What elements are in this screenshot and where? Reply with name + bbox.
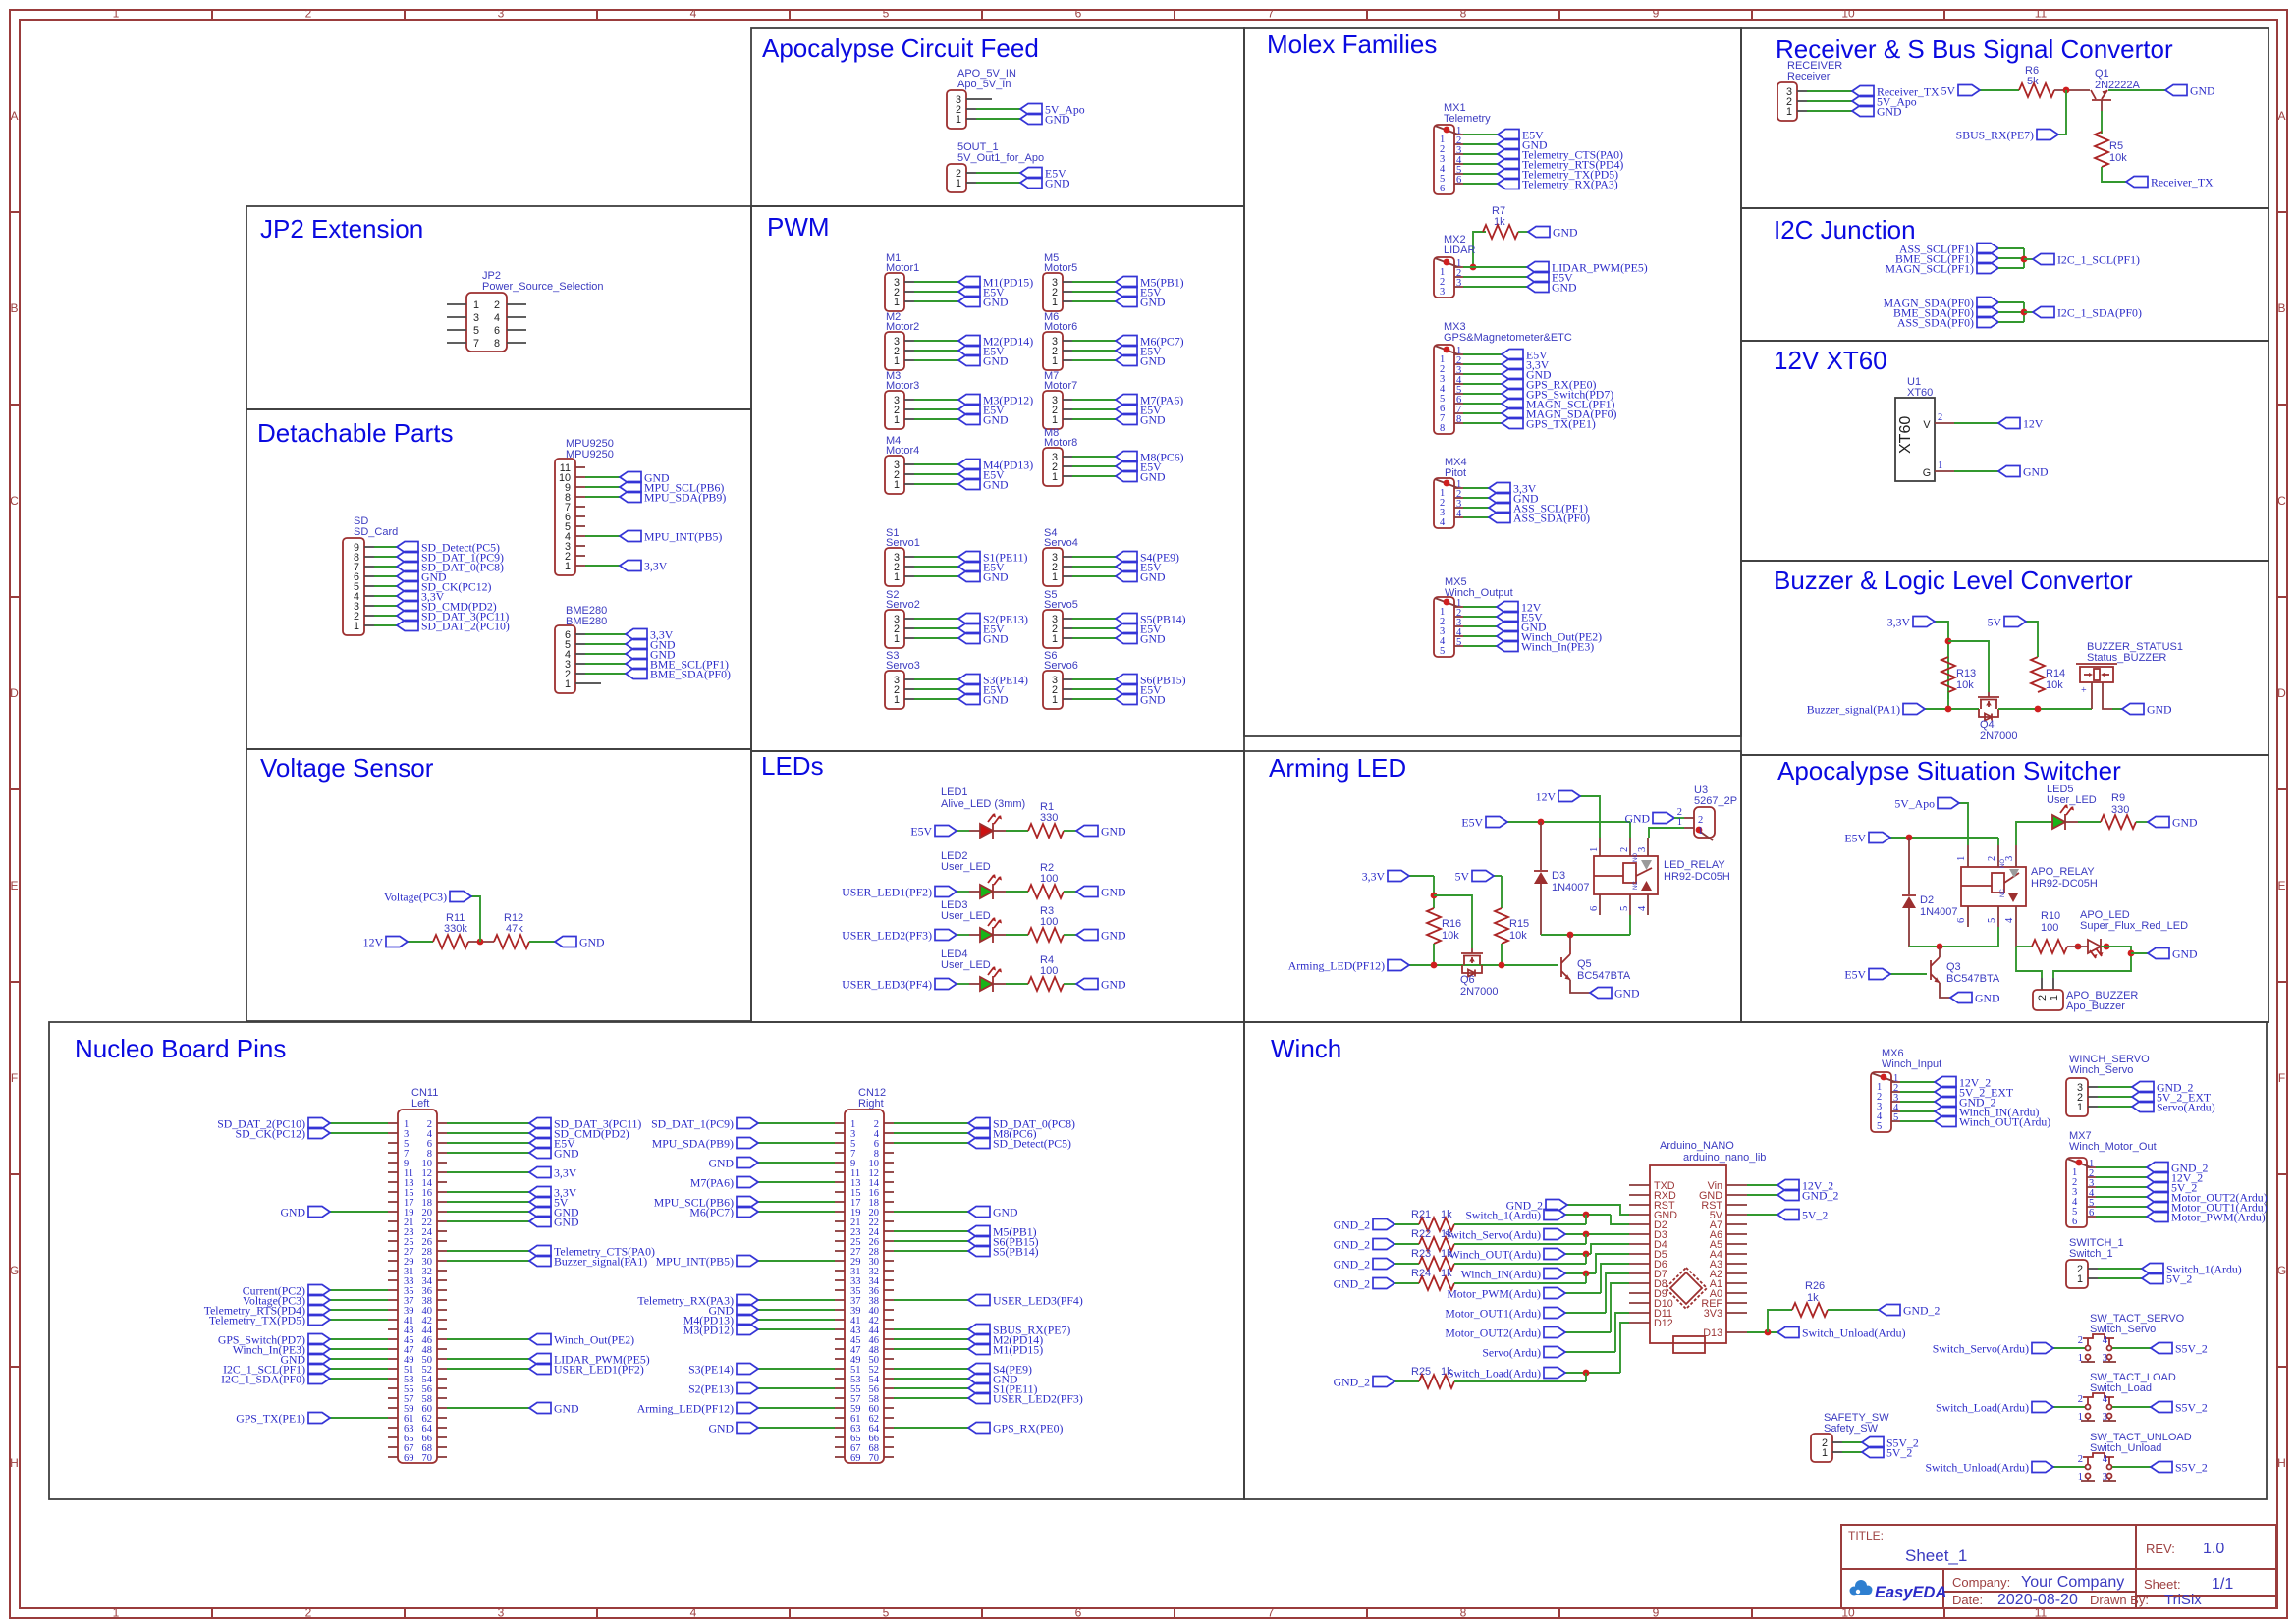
svg-text:HR92-DC05H: HR92-DC05H	[2031, 878, 2098, 890]
wire	[1674, 817, 1684, 819]
wire	[1541, 934, 1630, 936]
wire	[1565, 1351, 1615, 1353]
svg-text:Q4: Q4	[1980, 719, 1995, 731]
svg-text:3: 3	[2103, 1412, 2107, 1423]
net flag Telemetry_CTS(PA0)	[1498, 149, 1519, 160]
svg-text:3: 3	[498, 7, 505, 21]
net flag M4(PD13)	[958, 460, 980, 470]
wire	[1908, 908, 1910, 947]
svg-text:GND: GND	[1140, 693, 1166, 707]
wire	[585, 653, 626, 655]
wire	[2016, 946, 2032, 947]
net flag E5V	[1869, 969, 1890, 980]
wire	[330, 1378, 388, 1380]
svg-text:330k: 330k	[444, 923, 467, 935]
svg-text:12V: 12V	[2023, 417, 2044, 431]
wire	[1611, 1215, 1629, 1224]
wire	[1394, 1282, 1419, 1284]
wire	[1998, 257, 2024, 259]
wire	[914, 483, 958, 485]
wire	[2067, 946, 2088, 947]
net flag GND	[1076, 930, 1098, 941]
svg-text:ASS_SDA(PF0): ASS_SDA(PF0)	[1513, 512, 1590, 525]
wire	[1768, 1310, 1792, 1332]
junction	[1765, 1329, 1772, 1336]
svg-text:MPU_SDA(PB9): MPU_SDA(PB9)	[652, 1137, 734, 1151]
svg-text:GND: GND	[579, 936, 605, 949]
wire	[1900, 1120, 1935, 1122]
svg-text:Motor_OUT2(Ardu): Motor_OUT2(Ardu)	[1445, 1326, 1541, 1340]
net flag GND_2	[1373, 1219, 1394, 1230]
wire	[758, 1328, 835, 1330]
svg-text:5: 5	[1619, 906, 1630, 911]
wire	[1925, 708, 1979, 710]
net flag Winch_In(PE3)	[1497, 641, 1518, 652]
svg-text:APO_RELAY: APO_RELAY	[2031, 866, 2095, 878]
net flag GND	[1502, 369, 1523, 380]
wire	[914, 408, 958, 410]
wire	[1394, 1263, 1419, 1265]
svg-text:6: 6	[1589, 906, 1600, 911]
net flag GND	[1590, 988, 1612, 999]
net flag GPS_TX(PE1)	[308, 1413, 330, 1424]
wire	[408, 941, 433, 943]
svg-text:7: 7	[1268, 7, 1275, 21]
net flag 12V	[1497, 602, 1518, 613]
net flag Motor_OUT2(Ardu)	[2147, 1192, 2168, 1203]
svg-text:69: 69	[404, 1453, 414, 1464]
svg-text:M7(PA6): M7(PA6)	[690, 1176, 734, 1190]
svg-text:GND: GND	[2190, 84, 2215, 98]
net flag SD_CK(PC12)	[397, 581, 418, 592]
wire	[1570, 980, 1590, 993]
wire	[1072, 300, 1116, 302]
wire	[2136, 821, 2148, 823]
svg-text:F: F	[11, 1071, 18, 1085]
section box I2C Junction	[1741, 208, 2269, 341]
wire	[1006, 934, 1028, 936]
net flag BME_SCL(PF1)	[626, 659, 647, 670]
wire	[894, 1250, 968, 1252]
wire	[1463, 507, 1489, 509]
net flag GND_2	[1373, 1377, 1394, 1387]
net flag E5V	[1116, 684, 1137, 695]
wire	[969, 891, 980, 893]
svg-text:1: 1	[113, 7, 120, 21]
svg-text:GND: GND	[1101, 929, 1126, 943]
wire	[447, 1407, 529, 1409]
svg-text:BC547BTA: BC547BTA	[1577, 970, 1631, 982]
net flag E5V	[958, 346, 980, 356]
svg-text:SD_DAT_2(PC10): SD_DAT_2(PC10)	[421, 620, 510, 633]
wire	[2091, 682, 2093, 709]
svg-text:11: 11	[2035, 7, 2048, 21]
wire	[969, 830, 980, 832]
svg-text:2N7000: 2N7000	[1980, 731, 2018, 742]
net flag Switch_Load(Ardu)	[1544, 1368, 1565, 1379]
svg-text:GND: GND	[1553, 226, 1578, 240]
svg-text:5V: 5V	[1455, 870, 1470, 884]
svg-text:6: 6	[1440, 184, 1445, 194]
wire	[468, 941, 494, 943]
svg-text:1.0: 1.0	[2203, 1541, 2224, 1557]
svg-text:3: 3	[2103, 1353, 2107, 1364]
net flag GND	[1852, 106, 1874, 117]
net flag E5V	[1116, 461, 1137, 472]
section box Arming LED	[1244, 751, 1741, 1022]
wire	[1900, 1110, 1935, 1112]
net flag Buzzer_signal(PA1)	[1903, 704, 1925, 715]
svg-text:USER_LED1(PF2): USER_LED1(PF2)	[554, 1363, 644, 1377]
svg-text:BC547BTA: BC547BTA	[1946, 973, 2000, 985]
svg-text:6: 6	[2089, 1208, 2094, 1218]
wire	[957, 830, 969, 832]
wire	[894, 1397, 968, 1399]
wire	[2024, 258, 2033, 260]
svg-text:GPS_TX(PE1): GPS_TX(PE1)	[1526, 417, 1596, 431]
wire	[894, 1240, 968, 1242]
net flag E5V	[1498, 130, 1519, 140]
wire	[1072, 465, 1116, 467]
wire	[1072, 281, 1116, 283]
junction	[1945, 706, 1952, 713]
junction	[1945, 638, 1952, 645]
net flag Buzzer_signal(PA1)	[529, 1256, 551, 1267]
wire	[1409, 875, 1434, 877]
net flag ASS_SCL(PF1)	[1977, 244, 1998, 254]
net flag E5V	[1527, 272, 1549, 283]
net flag S5V_2	[2151, 1402, 2172, 1413]
net flag GND	[1076, 979, 1098, 990]
net flag S3(PE14)	[737, 1364, 758, 1375]
net flag GND	[958, 479, 980, 490]
svg-text:6: 6	[1075, 7, 1082, 21]
wire	[1935, 622, 1948, 699]
net flag SD_DAT_0(PC8)	[397, 562, 418, 572]
wire	[447, 1220, 529, 1222]
net flag 3,3V	[626, 629, 647, 640]
svg-text:GND: GND	[1975, 992, 2000, 1005]
svg-text:330: 330	[1040, 812, 1058, 824]
section box Molex Families	[1244, 28, 1741, 736]
net flag GND	[1116, 694, 1137, 705]
junction	[2063, 87, 2070, 94]
net flag BME_SDA(PF0)	[1977, 307, 1998, 318]
wire	[2016, 822, 2052, 845]
svg-text:D: D	[10, 686, 19, 700]
net flag GND	[529, 1207, 551, 1218]
net flag USER_LED1(PF2)	[935, 887, 957, 897]
svg-text:Super_Flux_Red_LED: Super_Flux_Red_LED	[2080, 920, 2188, 932]
svg-text:Date:: Date:	[1952, 1593, 1983, 1607]
wire	[585, 486, 620, 488]
net flag 5V_Apo	[1020, 104, 1042, 115]
junction	[1583, 1212, 1590, 1218]
junction	[1567, 932, 1574, 939]
svg-text:2: 2	[2078, 1454, 2083, 1465]
svg-text:9: 9	[1653, 7, 1660, 21]
wire	[585, 633, 626, 635]
wire	[2096, 1166, 2147, 1168]
svg-text:2: 2	[1987, 856, 1997, 861]
net flag BME_SCL(PF1)	[1977, 253, 1998, 264]
wire	[894, 1122, 968, 1124]
svg-text:1: 1	[1938, 460, 1942, 471]
svg-text:1: 1	[894, 479, 900, 491]
net flag M5(PB1)	[968, 1226, 990, 1237]
net flag Telemetry_RTS(PD4)	[308, 1305, 330, 1316]
wire	[2096, 1196, 2147, 1198]
svg-text:C: C	[10, 494, 19, 508]
svg-text:GND: GND	[280, 1206, 305, 1219]
net flag M2(PD14)	[958, 336, 980, 347]
wire	[758, 1122, 835, 1124]
net flag S5V_2	[2151, 1462, 2172, 1473]
net flag GND	[308, 1207, 330, 1218]
svg-text:I2C_1_SDA(PF0): I2C_1_SDA(PF0)	[221, 1373, 305, 1386]
net flag E5V	[1116, 346, 1137, 356]
transistor Q4 2N7000	[1988, 692, 1990, 697]
net flag E5V	[1497, 612, 1518, 623]
wire	[1606, 1273, 1629, 1313]
svg-text:GND: GND	[708, 1157, 734, 1170]
svg-text:D: D	[2277, 686, 2286, 700]
net flag 12V	[1558, 791, 1580, 802]
wire	[585, 643, 626, 645]
net flag M1(PD15)	[958, 277, 980, 288]
net flag GND	[555, 937, 576, 947]
wire	[2102, 167, 2126, 182]
wire	[1409, 964, 1558, 966]
wire	[1507, 821, 1630, 823]
net flag 12V_2	[2147, 1172, 2168, 1183]
wire	[1394, 1380, 1419, 1382]
svg-text:10: 10	[1841, 7, 1855, 21]
svg-text:E5V: E5V	[1461, 816, 1483, 830]
wire	[2053, 947, 2131, 978]
net flag 3,3V	[1388, 871, 1409, 882]
svg-text:GND: GND	[1140, 632, 1166, 646]
svg-text:GND: GND	[993, 1206, 1018, 1219]
wire	[330, 1319, 388, 1321]
svg-text:M1(PD15): M1(PD15)	[993, 1343, 1043, 1357]
svg-text:1: 1	[1822, 1447, 1828, 1459]
svg-text:10k: 10k	[1956, 679, 1974, 691]
svg-text:8: 8	[1440, 423, 1445, 434]
wire	[2098, 1086, 2132, 1088]
svg-text:R14: R14	[2046, 668, 2065, 679]
net flag 3,3V	[397, 591, 418, 602]
svg-text:S5V_2: S5V_2	[2175, 1461, 2208, 1475]
svg-text:R26: R26	[1805, 1280, 1825, 1292]
wire	[330, 1122, 388, 1124]
wire	[1463, 625, 1497, 627]
wire	[969, 934, 980, 936]
svg-text:1: 1	[1677, 817, 1682, 828]
svg-text:GND: GND	[1552, 281, 1577, 295]
net flag SD_DAT_0(PC8)	[968, 1118, 990, 1129]
junction	[1937, 944, 1943, 950]
svg-text:GND: GND	[983, 478, 1009, 492]
net flag GND_2	[1879, 1305, 1900, 1316]
wire	[914, 350, 958, 352]
wire	[969, 983, 980, 985]
svg-text:1: 1	[1052, 297, 1058, 308]
junction	[2021, 256, 2028, 263]
wire	[1064, 983, 1076, 985]
wire	[447, 1201, 529, 1203]
svg-text:Apocalypse Circuit Feed: Apocalypse Circuit Feed	[762, 33, 1039, 63]
svg-text:1: 1	[1052, 571, 1058, 583]
net flag GND	[968, 1207, 990, 1218]
svg-text:SD_DAT_1(PC9): SD_DAT_1(PC9)	[651, 1117, 734, 1131]
wire	[758, 1181, 835, 1183]
resistor R7	[1483, 225, 1518, 239]
svg-text:3,3V: 3,3V	[1887, 616, 1911, 629]
net flag Telemetry_TX(PD5)	[308, 1315, 330, 1326]
svg-text:12V: 12V	[1536, 790, 1557, 804]
net flag 5V	[2004, 617, 2026, 627]
net flag M2(PD14)	[968, 1334, 990, 1345]
wire	[2078, 821, 2101, 823]
net flag MAGN_SCL(PF1)	[1977, 263, 1998, 274]
svg-text:Winch_OUT(Ardu): Winch_OUT(Ardu)	[1449, 1248, 1541, 1262]
resistor R6	[2019, 83, 2054, 97]
wire	[1473, 232, 1486, 267]
section box Apocalypse Situation Switcher	[1741, 755, 2269, 1022]
resistor R10	[2032, 940, 2067, 953]
svg-text:MAGN_SCL(PF1): MAGN_SCL(PF1)	[1886, 262, 1975, 276]
net flag E5V	[958, 287, 980, 298]
wire	[1072, 566, 1116, 568]
net flag Winch_OUT(Ardu)	[1544, 1249, 1565, 1260]
svg-text:GND: GND	[1101, 825, 1126, 839]
net flag GND	[1527, 282, 1549, 293]
net flag Telemetry_RX(PA3)	[1498, 179, 1519, 189]
net flag GND	[1528, 227, 1550, 238]
svg-text:4: 4	[494, 312, 500, 324]
wire	[447, 1211, 529, 1213]
net flag MPU_INT(PB5)	[737, 1256, 758, 1267]
wire	[1601, 1233, 1629, 1235]
net flag Switch_Servo(Ardu)	[1544, 1229, 1565, 1240]
net flag Winch_OUT(Ardu)	[1935, 1116, 1956, 1127]
wire	[447, 1142, 529, 1144]
net flag Telemetry_CTS(PA0)	[529, 1246, 551, 1257]
svg-text:Winch_OUT(Ardu): Winch_OUT(Ardu)	[1959, 1115, 2050, 1129]
svg-text:5V_2: 5V_2	[1886, 1446, 1912, 1460]
wire	[447, 1132, 529, 1134]
wire	[1072, 637, 1116, 639]
wire	[2096, 1206, 2147, 1208]
wire	[758, 1368, 835, 1370]
wire	[1900, 1081, 1935, 1083]
svg-text:SD_Detect(PC5): SD_Detect(PC5)	[993, 1137, 1071, 1151]
wire	[1454, 1263, 1586, 1265]
net flag GND	[1076, 826, 1098, 837]
wire	[914, 399, 958, 401]
net flag M5(PB1)	[1116, 277, 1137, 288]
junction	[1538, 819, 1545, 826]
net flag GND	[626, 649, 647, 660]
net flag GND	[1020, 114, 1042, 125]
svg-text:7: 7	[1268, 1606, 1275, 1620]
wire	[2024, 311, 2033, 313]
svg-text:4: 4	[1637, 905, 1648, 911]
net flag GND	[1653, 813, 1674, 824]
net flag GND_2	[2147, 1163, 2168, 1173]
net flag E5V	[958, 623, 980, 634]
wire	[1463, 412, 1502, 414]
wire	[330, 1132, 388, 1134]
net flag SD_DAT_3(PC11)	[529, 1118, 551, 1129]
svg-text:1: 1	[1052, 355, 1058, 367]
wire	[1565, 1331, 1611, 1333]
junction	[1906, 835, 1913, 841]
net flag M8(PC6)	[1116, 452, 1137, 462]
svg-text:1: 1	[565, 561, 571, 572]
net flag Switch_Unload(Ardu)	[2032, 1462, 2053, 1473]
wire	[1394, 1223, 1419, 1225]
svg-text:10k: 10k	[2046, 679, 2063, 691]
svg-text:100: 100	[2041, 922, 2058, 934]
net flag E5V	[1116, 405, 1137, 415]
svg-text:GND: GND	[1140, 470, 1166, 484]
svg-text:4: 4	[1456, 509, 1462, 519]
wire	[330, 1309, 388, 1311]
svg-text:5V: 5V	[1941, 84, 1956, 98]
wire	[1072, 556, 1116, 558]
net flag MAGN_SCL(PF1)	[1502, 399, 1523, 409]
net flag M1(PD15)	[968, 1344, 990, 1355]
svg-text:Left: Left	[411, 1098, 429, 1110]
wire	[1998, 321, 2024, 323]
svg-text:47k: 47k	[506, 923, 523, 935]
svg-text:1: 1	[1698, 826, 1703, 837]
net flag 12V_2	[1935, 1077, 1956, 1088]
wire	[447, 1122, 529, 1124]
net flag ASS_SCL(PF1)	[1489, 503, 1510, 514]
svg-text:1: 1	[894, 633, 900, 645]
svg-text:3: 3	[1456, 278, 1461, 289]
wire	[2112, 1347, 2151, 1349]
wire	[1072, 688, 1116, 690]
net flag GND_2	[1935, 1097, 1956, 1108]
section box LEDs	[751, 751, 1244, 1022]
svg-text:E5V: E5V	[1844, 968, 1866, 982]
wire	[894, 1211, 968, 1213]
section box Buzzer and Logic Level Convertor	[1741, 561, 2269, 755]
svg-text:3: 3	[2004, 856, 2015, 861]
wire	[1842, 1441, 1862, 1443]
wire	[976, 98, 992, 100]
net flag SD_DAT_3(PC11)	[397, 611, 418, 622]
wire	[447, 1152, 529, 1154]
wire	[1064, 830, 1076, 832]
svg-text:G: G	[1923, 467, 1931, 479]
wire	[1565, 1272, 1596, 1274]
net flag Arming_LED(PF12)	[737, 1403, 758, 1414]
svg-text:Q6: Q6	[1460, 974, 1475, 986]
net flag I2C_1_SCL(PF1)	[2033, 254, 2054, 265]
net flag GND_2	[1373, 1259, 1394, 1270]
svg-text:4: 4	[2103, 1394, 2108, 1405]
svg-text:GND: GND	[2172, 816, 2198, 830]
svg-text:1/1: 1/1	[2212, 1576, 2233, 1593]
net flag GND_2	[1777, 1190, 1799, 1201]
wire	[914, 678, 958, 680]
net flag Servo(Ardu)	[2132, 1102, 2154, 1112]
